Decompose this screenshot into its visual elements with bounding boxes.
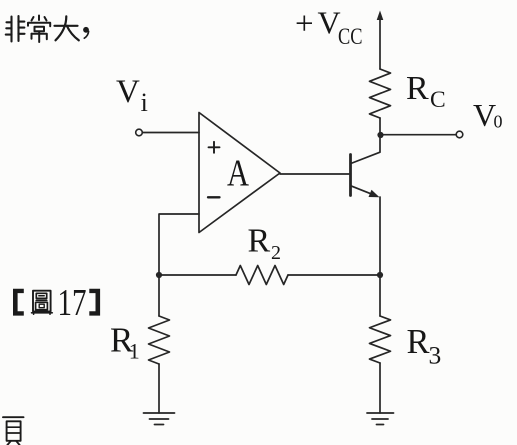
svg-text:R: R [407,323,430,361]
svg-text:R: R [248,223,271,260]
svg-text:A: A [227,153,249,195]
svg-text:i: i [141,88,148,117]
svg-text:2: 2 [271,242,281,264]
svg-text:R: R [406,70,429,107]
svg-text:17: 17 [58,282,87,324]
svg-text:C: C [430,87,446,113]
svg-text:CC: CC [338,24,363,49]
svg-text:V: V [116,74,140,110]
svg-text:0: 0 [494,112,503,132]
svg-text:1: 1 [129,339,140,364]
svg-text:+: + [295,6,314,42]
svg-text:3: 3 [429,341,442,370]
